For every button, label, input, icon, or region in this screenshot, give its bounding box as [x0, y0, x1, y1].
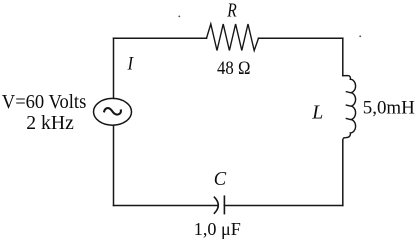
- stray speck 2: [359, 35, 361, 37]
- svg-text:2 kHz: 2 kHz: [26, 112, 74, 134]
- svg-text:R: R: [226, 0, 236, 21]
- wire top-right segment: [259, 37, 343, 39]
- wire top-left segment: [114, 37, 207, 39]
- ac source sine wave: [104, 108, 121, 114]
- svg-text:V=60 Volts: V=60 Volts: [2, 91, 87, 113]
- wire right lower: [342, 141, 344, 206]
- ac source V ellipse: [94, 98, 132, 125]
- svg-text:1,0 μF: 1,0 μF: [194, 219, 241, 239]
- wire left upper: [113, 38, 115, 98]
- resistor R zigzag: [207, 24, 259, 51]
- stray speck 1: [178, 16, 180, 18]
- svg-text:5,0mH: 5,0mH: [363, 98, 415, 119]
- inductor L coil: [343, 76, 356, 141]
- wire left lower: [113, 125, 115, 205]
- svg-text:L: L: [311, 101, 323, 123]
- wire right upper: [342, 38, 344, 75]
- capacitor C left curved plate: [214, 197, 218, 213]
- svg-text:I: I: [127, 53, 135, 74]
- capacitor C right plate: [223, 196, 225, 213]
- svg-text:C: C: [214, 168, 227, 190]
- svg-text:48 Ω: 48 Ω: [217, 59, 250, 79]
- wire bottom-right segment: [224, 205, 342, 207]
- wire bottom-left segment: [114, 205, 219, 207]
